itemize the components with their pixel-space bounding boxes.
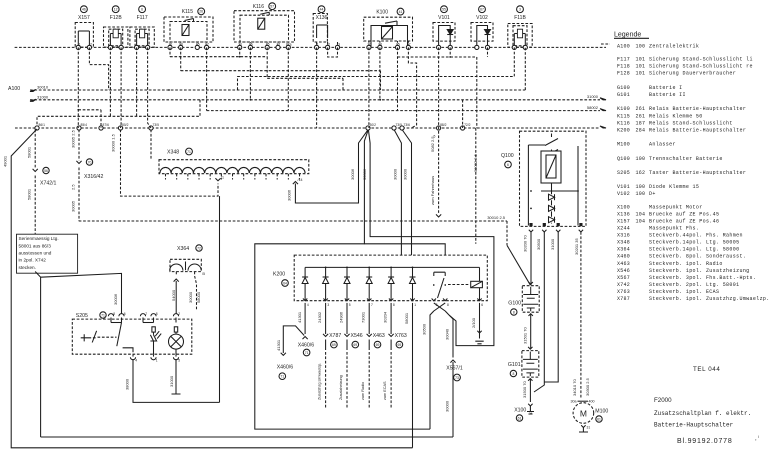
- svg-text:30201 35: 30201 35: [574, 238, 579, 255]
- svg-text:5: 5: [178, 359, 180, 363]
- svg-text:30000: 30000: [445, 400, 450, 412]
- wire X136/3 bridge: [328, 47, 338, 57]
- svg-text:30000 1.5: 30000 1.5: [110, 133, 115, 152]
- wire X364/5 58000: [188, 272, 205, 310]
- fuse F117: [130, 6, 154, 50]
- svg-text:261: 261: [636, 113, 646, 119]
- svg-text:F11B: F11B: [514, 15, 526, 21]
- svg-text:6: 6: [481, 303, 483, 307]
- svg-text:/5: /5: [202, 272, 205, 276]
- svg-text:57: 57: [270, 5, 274, 9]
- svg-text:30000: 30000: [403, 168, 408, 180]
- svg-text:2/100: 2/100: [471, 317, 476, 328]
- svg-text:1: 1: [414, 303, 416, 307]
- svg-text:24906: 24906: [338, 311, 343, 323]
- svg-text:X742: X742: [617, 282, 630, 288]
- wire 58002 line: [207, 105, 606, 111]
- svg-text:12: 12: [114, 8, 118, 12]
- svg-text:Zusatzheizung: Zusatzheizung: [339, 375, 343, 400]
- svg-text:K115: K115: [617, 113, 630, 119]
- diode V102: [471, 6, 493, 50]
- svg-text:30500: 30500: [422, 323, 427, 335]
- svg-text:30006: 30006: [113, 293, 118, 305]
- svg-text:Q100: Q100: [501, 153, 514, 159]
- connector X348: [159, 148, 309, 179]
- svg-text:30000: 30000: [393, 168, 398, 180]
- svg-text:M100: M100: [595, 408, 608, 414]
- svg-text:100: 100: [636, 43, 646, 49]
- svg-text:101: 101: [636, 71, 646, 77]
- svg-text:S205: S205: [617, 170, 630, 176]
- svg-text:F2000: F2000: [654, 397, 672, 404]
- wire X364 pin to S205/2 54000: [171, 279, 179, 314]
- svg-text:Steckverb. 1pol. Radio: Steckverb. 1pol. Radio: [649, 261, 723, 267]
- svg-text:55: 55: [442, 8, 446, 12]
- wire 72/2 from 31000: [462, 100, 464, 128]
- svg-text:X546: X546: [351, 333, 363, 339]
- svg-text:187: 187: [636, 120, 646, 126]
- svg-text:71: 71: [305, 351, 309, 355]
- svg-text:X136: X136: [316, 15, 328, 21]
- svg-text:Steckverb.44pol. Fhs. Rahmen: Steckverb.44pol. Fhs. Rahmen: [649, 233, 743, 239]
- svg-text:26: 26: [199, 10, 203, 14]
- svg-text:Q100: Q100: [617, 156, 630, 162]
- fuse F12B: [104, 6, 128, 50]
- wire K100/87 jog: [408, 47, 416, 128]
- svg-text:Bl.99192.0778: Bl.99192.0778: [677, 438, 733, 445]
- svg-text:G101: G101: [508, 362, 521, 368]
- wire top supply bus (Klemme 30): [15, 46, 606, 48]
- svg-text:100: 100: [636, 191, 646, 197]
- svg-text:Trennschalter Batterie: Trennschalter Batterie: [649, 156, 723, 162]
- svg-text:Massepunkt Motor: Massepunkt Motor: [649, 204, 703, 210]
- svg-text:Batterie-Hauptschalter: Batterie-Hauptschalter: [654, 421, 734, 428]
- wire F117/2 to 73/5: [148, 47, 151, 128]
- wire K100/85 to 58002: [397, 47, 399, 110]
- svg-text:6: 6: [141, 8, 143, 12]
- wire K115/87 to 58002: [206, 47, 208, 110]
- svg-text:Relais Klemme 50: Relais Klemme 50: [649, 113, 703, 119]
- battery G100: [508, 282, 539, 316]
- svg-text:X742/1: X742/1: [40, 181, 57, 187]
- svg-text:67: 67: [480, 8, 484, 12]
- svg-text:Relais Stand-Schlusslicht: Relais Stand-Schlusslicht: [649, 120, 733, 126]
- svg-text:100: 100: [636, 184, 646, 190]
- wire K200/4 41301 to X460/6: [297, 303, 314, 356]
- svg-text:Steckverb. 2pol. Ltg. 58001: Steckverb. 2pol. Ltg. 58001: [649, 282, 739, 288]
- motor M100 Anlasser: [571, 400, 609, 433]
- svg-text:30010 2.5: 30010 2.5: [487, 215, 506, 220]
- wire F117/1 stub: [136, 47, 138, 116]
- svg-text:8: 8: [513, 310, 515, 314]
- svg-text:Sicherung Stand-Schlusslicht l: Sicherung Stand-Schlusslicht li: [649, 57, 753, 63]
- svg-text:56: 56: [44, 169, 48, 173]
- svg-text:31000: 31000: [169, 375, 174, 387]
- svg-text:Steckverb.14pol. Ltg. 50005: Steckverb.14pol. Ltg. 50005: [649, 240, 739, 246]
- svg-text:61: 61: [597, 417, 601, 421]
- svg-text:F117: F117: [137, 15, 148, 21]
- svg-text:72: 72: [197, 246, 201, 250]
- wire F128/2 to 80/2: [120, 47, 123, 128]
- svg-text:80/2: 80/2: [122, 123, 129, 127]
- svg-text:30040: 30040: [445, 328, 450, 340]
- svg-text:Sicherung Stand-Schlusslicht r: Sicherung Stand-Schlusslicht re: [649, 64, 753, 70]
- wire 80/2 to X348/1: [121, 130, 219, 197]
- svg-text:/14: /14: [298, 178, 303, 182]
- wire feeder 86/1: [37, 100, 200, 128]
- svg-text:G100: G100: [508, 301, 521, 307]
- fuse F11B: [508, 6, 532, 50]
- battery G101: [508, 347, 539, 381]
- wire G100 to G101 31501: [522, 314, 530, 350]
- wire 31000 line: [30, 94, 606, 101]
- title block: [654, 366, 759, 445]
- svg-text:V101: V101: [617, 184, 630, 190]
- svg-text:Steckverb. 1pol. Zusatzhzg.Umw: Steckverb. 1pol. Zusatzhzg.Umwaelzp.: [649, 296, 770, 302]
- wire K115/86 to line 70.7: [181, 57, 381, 90]
- svg-text:X460/6: X460/6: [298, 342, 315, 348]
- svg-text:Diode Klemme 15: Diode Klemme 15: [649, 184, 699, 190]
- wire 58002 2.5 below bus: [473, 128, 478, 244]
- svg-text:X244: X244: [617, 226, 630, 232]
- svg-text:V102: V102: [476, 15, 488, 21]
- svg-text:5082 2.5: 5082 2.5: [430, 136, 435, 152]
- relay K100 Batterie-Hauptschalter: [364, 8, 413, 49]
- connector X316/42: [70, 130, 103, 222]
- svg-text:8: 8: [156, 312, 158, 316]
- svg-text:Steckverb. 1pol. Zusatzheizung: Steckverb. 1pol. Zusatzheizung: [649, 268, 750, 274]
- ground X100 Massepunkt Motor: [514, 404, 534, 421]
- svg-text:zum Fahrerhaus: zum Fahrerhaus: [430, 176, 435, 205]
- svg-text:in 2pol. X742: in 2pol. X742: [19, 258, 47, 263]
- switch S205 Taster Batterie-Hauptschalter: [72, 312, 192, 363]
- svg-text:Steckverb.14pol. Ltg. 58000: Steckverb.14pol. Ltg. 58000: [649, 247, 739, 253]
- svg-text:58002: 58002: [587, 105, 599, 110]
- pin X348/1: [221, 176, 224, 180]
- svg-text:Zusatzhzg.Umwaelzp.: Zusatzhzg.Umwaelzp.: [318, 363, 322, 400]
- svg-text:M: M: [580, 409, 587, 419]
- svg-text:30300 2.5: 30300 2.5: [585, 377, 590, 396]
- svg-text:F128: F128: [617, 71, 630, 77]
- svg-text:3: 3: [327, 303, 329, 307]
- svg-text:101: 101: [636, 64, 646, 70]
- svg-text:58000: 58000: [196, 291, 201, 303]
- svg-text:73/5: 73/5: [153, 123, 160, 127]
- svg-text:X763: X763: [617, 289, 630, 295]
- svg-text:K115: K115: [182, 9, 194, 15]
- svg-text:61: 61: [518, 416, 522, 420]
- svg-text:I: I: [758, 435, 759, 439]
- note Serienmaessig: [17, 234, 78, 273]
- svg-text:X100: X100: [617, 204, 630, 210]
- wire Q100/4 30201 to M100: [572, 232, 590, 399]
- svg-text:41301: 41301: [297, 311, 302, 323]
- svg-text:71: 71: [187, 150, 191, 154]
- wire K200/6 2/100 to ground: [471, 303, 484, 344]
- wire 87/6 feeder: [77, 109, 101, 128]
- svg-text:71: 71: [280, 375, 284, 379]
- wire bottom line 437: [41, 436, 453, 438]
- svg-text:31500 70: 31500 70: [522, 381, 527, 398]
- svg-text:69: 69: [398, 343, 402, 347]
- svg-text:400: 400: [589, 400, 595, 404]
- svg-text:Massepunkt Fhs.: Massepunkt Fhs.: [649, 226, 699, 232]
- svg-text:8: 8: [393, 303, 395, 307]
- svg-text:Zusatzschaltplan f. elektr.: Zusatzschaltplan f. elektr.: [654, 410, 751, 417]
- svg-text:X463: X463: [617, 261, 630, 267]
- svg-text:F118: F118: [617, 64, 630, 70]
- svg-text:/1: /1: [221, 176, 224, 180]
- svg-text:X100: X100: [514, 408, 526, 414]
- svg-text:ausstossen und: ausstossen und: [19, 251, 52, 256]
- svg-text:87/6: 87/6: [103, 123, 110, 127]
- svg-text:zum Radio: zum Radio: [361, 382, 365, 400]
- wire Q100/2 30500 down: [534, 232, 544, 392]
- svg-text:K200: K200: [273, 272, 285, 278]
- svg-text:S205: S205: [76, 313, 88, 319]
- wire Q100/3 31000 down: [544, 232, 558, 382]
- svg-text:71: 71: [101, 313, 105, 317]
- wire X348/1 down to S205/4: [219, 196, 221, 402]
- svg-text:3: 3: [519, 8, 521, 12]
- svg-text:54000: 54000: [171, 289, 176, 301]
- wire S205/4 38000: [124, 359, 219, 402]
- svg-text:M100: M100: [617, 142, 630, 148]
- wire G101 to X100 31500: [522, 379, 530, 403]
- wire 30010 2.5 to Q100/G100: [79, 215, 531, 285]
- wire Q100/1 30200 to G100: [523, 232, 531, 285]
- svg-text:31501 70: 31501 70: [522, 327, 527, 344]
- svg-text:X787: X787: [617, 296, 630, 302]
- wire 30010 line: [30, 47, 525, 91]
- svg-text:X546: X546: [617, 268, 630, 274]
- svg-text:30a: 30a: [571, 400, 577, 404]
- svg-text:34010 70: 34010 70: [572, 379, 577, 396]
- svg-text:X567/1: X567/1: [446, 366, 463, 372]
- svg-text:31000: 31000: [37, 94, 49, 99]
- wire 49001 from 86/1: [2, 129, 412, 448]
- svg-text:58001: 58001: [26, 188, 31, 200]
- svg-text:4: 4: [307, 303, 309, 307]
- svg-text:69: 69: [332, 343, 336, 347]
- svg-text:46: 46: [82, 8, 86, 12]
- wire line to F118/1: [238, 47, 515, 90]
- svg-text:Legende: Legende: [614, 32, 641, 39]
- wire X742 replacement left side: [35, 272, 40, 438]
- wire X460/6 mate from left: [276, 326, 304, 380]
- wire V101/1 zum Fahrerhaus: [430, 47, 441, 217]
- svg-text:X348: X348: [167, 150, 179, 156]
- svg-text:4: 4: [135, 359, 137, 363]
- svg-text:101: 101: [636, 57, 646, 63]
- svg-text:58002 2.5: 58002 2.5: [473, 153, 478, 172]
- wire bottom line 447.8 joins 58001: [412, 430, 414, 448]
- svg-text:41: 41: [399, 10, 403, 14]
- svg-text:X463: X463: [373, 333, 385, 339]
- svg-text:30204: 30204: [383, 311, 388, 323]
- svg-text:V101: V101: [438, 15, 450, 21]
- svg-text:stecken.: stecken.: [19, 265, 36, 270]
- svg-text:X460: X460: [617, 254, 630, 260]
- svg-text:G101: G101: [617, 92, 630, 98]
- svg-text:G100: G100: [617, 85, 630, 91]
- svg-text:58001 aus 86/3: 58001 aus 86/3: [19, 243, 52, 248]
- svg-text:86/1: 86/1: [39, 123, 46, 127]
- svg-text:Sicherung Dauerverbraucher: Sicherung Dauerverbraucher: [649, 71, 736, 77]
- wire K116/86 to 31000: [249, 47, 251, 99]
- svg-text:30200 70: 30200 70: [523, 235, 528, 252]
- svg-text:38000: 38000: [124, 378, 129, 390]
- wire K100/86 to 31000: [379, 47, 381, 99]
- wire K200/8 30040 to X567/1: [445, 315, 463, 437]
- wire K116/85 to line 78.3: [267, 57, 343, 90]
- svg-text:X763: X763: [395, 333, 407, 339]
- wire X136/1 down: [316, 47, 318, 128]
- svg-text:69: 69: [376, 343, 380, 347]
- wire V102/2 stub: [487, 47, 489, 57]
- svg-text:6: 6: [507, 163, 509, 167]
- wire V102/1 down: [476, 57, 478, 128]
- wire S205/5 31000: [169, 359, 181, 394]
- svg-text:Batterie I: Batterie I: [649, 85, 683, 91]
- svg-text:30005 2.5: 30005 2.5: [70, 129, 75, 148]
- connector X364: [170, 245, 203, 276]
- connector X157 (bridge on ZE pos.46): [75, 6, 93, 50]
- svg-text:2.5: 2.5: [70, 184, 75, 190]
- wire K200/2 30500 down: [422, 303, 449, 429]
- svg-text:2: 2: [178, 312, 180, 316]
- svg-text:X348: X348: [617, 240, 630, 246]
- pin X348/14: [293, 178, 303, 184]
- svg-text:Relais Batterie-Hauptschalter: Relais Batterie-Hauptschalter: [649, 128, 746, 134]
- svg-text:K116: K116: [253, 4, 265, 10]
- wire 73/5 stub down: [150, 130, 152, 161]
- svg-text:88/2: 88/2: [440, 123, 447, 127]
- svg-text:Steckverb. 3pol. Fhs.Batt.-Hpt: Steckverb. 3pol. Fhs.Batt.-Hpts.: [649, 275, 756, 281]
- svg-text:K200: K200: [617, 128, 630, 134]
- svg-text:44: 44: [320, 8, 324, 12]
- svg-text:73/6: 73/6: [404, 123, 411, 127]
- svg-text:X364: X364: [177, 246, 189, 252]
- connector X763: [383, 303, 407, 409]
- wire V101 sub-bus: [398, 47, 477, 57]
- svg-text:Relais Batterie-Hauptschalter: Relais Batterie-Hauptschalter: [649, 106, 746, 112]
- wire K100/30 down to 30/2: [368, 47, 370, 128]
- svg-text:8: 8: [447, 303, 449, 307]
- wire F128/1 down: [109, 47, 111, 116]
- relay K200 Relais Batterie-Hauptschalter: [273, 255, 487, 307]
- svg-text:31: 31: [587, 426, 591, 430]
- connector X463: [361, 303, 385, 409]
- wire X157/2 stub: [89, 47, 108, 90]
- svg-text:X157: X157: [617, 218, 630, 224]
- svg-text:X567: X567: [617, 275, 630, 281]
- svg-text:Steckverb. 8pol. Sonderausst.: Steckverb. 8pol. Sonderausst.: [649, 254, 746, 260]
- svg-text:X460/6: X460/6: [277, 364, 294, 370]
- connector X787: [317, 303, 341, 409]
- svg-text:100: 100: [636, 156, 646, 162]
- diode V101: [433, 6, 455, 50]
- svg-text:X787: X787: [329, 333, 341, 339]
- svg-text:30010: 30010: [37, 85, 49, 90]
- svg-text:24302: 24302: [317, 311, 322, 323]
- svg-text:7: 7: [371, 303, 373, 307]
- svg-text:Zentralelektrik: Zentralelektrik: [649, 43, 699, 49]
- wire loop B from contact to bus 30/2: [369, 131, 494, 346]
- relay K115: [164, 8, 213, 50]
- svg-text:Taster Batterie-Hauptschalter: Taster Batterie-Hauptschalter: [649, 170, 746, 176]
- svg-text:Serienmaessig Ltg.: Serienmaessig Ltg.: [19, 236, 59, 241]
- svg-text:85/4: 85/4: [81, 123, 88, 127]
- svg-text:6: 6: [124, 312, 126, 316]
- svg-text:K116: K116: [617, 120, 630, 126]
- svg-text:30500: 30500: [536, 238, 541, 250]
- svg-text:zum ECAS: zum ECAS: [383, 381, 387, 400]
- svg-text:58001: 58001: [404, 312, 409, 324]
- svg-text:D+: D+: [649, 191, 656, 197]
- svg-text:30/2: 30/2: [370, 123, 377, 127]
- svg-text:Bruecke auf ZE Pos.46: Bruecke auf ZE Pos.46: [649, 218, 719, 224]
- svg-text:30005: 30005: [70, 200, 75, 212]
- svg-text:162: 162: [636, 170, 646, 176]
- svg-text:X316: X316: [617, 233, 630, 239]
- legend: [601, 32, 770, 303]
- wire K116/87a to 58002: [287, 47, 289, 110]
- relay K116: [234, 3, 295, 50]
- svg-text:64: 64: [283, 281, 287, 285]
- svg-text:261: 261: [636, 106, 646, 112]
- switch Q100 Trennschalter Batterie: [501, 131, 586, 232]
- svg-text:73001: 73001: [361, 311, 366, 323]
- svg-text:Steckverb. 1pol. ECAS: Steckverb. 1pol. ECAS: [649, 289, 719, 295]
- svg-text:K100: K100: [376, 10, 388, 16]
- svg-text:30006: 30006: [287, 189, 292, 201]
- svg-text:Anlasser: Anlasser: [649, 142, 676, 148]
- svg-text:69: 69: [353, 343, 357, 347]
- svg-text:284: 284: [636, 128, 646, 134]
- wire X157/1 to 85/4: [77, 47, 79, 128]
- svg-text:70: 70: [88, 160, 92, 164]
- svg-text:A100: A100: [617, 43, 630, 49]
- wire 73/5 73/6 down pair 30000: [393, 130, 412, 256]
- svg-text:F12B: F12B: [110, 15, 123, 21]
- svg-text:X157: X157: [78, 15, 90, 21]
- svg-text:7: 7: [145, 312, 147, 316]
- connector X546: [338, 303, 362, 409]
- connector X136 (bridge on ZE pos.45): [313, 6, 340, 50]
- svg-text:8: 8: [113, 312, 115, 316]
- svg-text:V102: V102: [617, 191, 630, 197]
- connector X742/1: [26, 130, 56, 272]
- svg-text:49001: 49001: [2, 155, 7, 167]
- svg-text:K100: K100: [617, 106, 630, 112]
- svg-text:41301: 41301: [276, 339, 281, 351]
- svg-text:1: 1: [156, 359, 158, 363]
- svg-text:31000: 31000: [550, 238, 555, 250]
- svg-text:72/2: 72/2: [464, 123, 471, 127]
- svg-text:X364: X364: [617, 247, 630, 253]
- wire X348/12 30006 to 30/2: [287, 130, 368, 203]
- svg-text:30006: 30006: [350, 168, 355, 180]
- wire K200/1 58001: [404, 303, 413, 448]
- svg-text:8: 8: [512, 372, 514, 376]
- svg-text:104: 104: [636, 218, 646, 224]
- svg-text:104: 104: [636, 212, 646, 218]
- svg-text:31000: 31000: [587, 94, 599, 99]
- svg-text:30000: 30000: [188, 291, 193, 303]
- svg-text:73: 73: [455, 376, 459, 380]
- svg-text:TEL 044: TEL 044: [693, 366, 720, 373]
